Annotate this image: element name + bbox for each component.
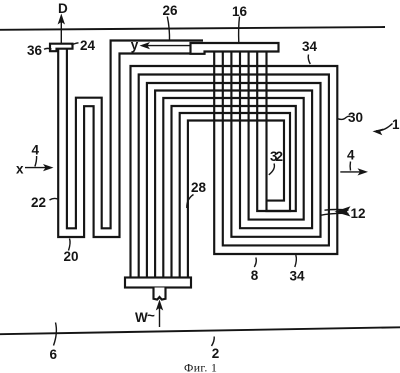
leader 20 <box>69 239 71 251</box>
y arrow line <box>143 45 191 47</box>
svg-text:36: 36 <box>27 43 43 58</box>
D arrow <box>60 20 62 44</box>
stub W below bar 28 <box>154 288 166 300</box>
svg-text:1: 1 <box>392 117 400 132</box>
y arrowhead <box>140 42 151 49</box>
svg-text:12: 12 <box>351 206 366 221</box>
substrate bottom boundary line 2 <box>0 327 400 334</box>
leader 16 <box>238 17 241 43</box>
leader 36 <box>44 47 52 50</box>
svg-text:~: ~ <box>147 308 155 323</box>
leader 12 upper <box>325 209 349 212</box>
terminal pad 24/36 (T-bar) <box>50 44 73 52</box>
svg-text:28: 28 <box>191 180 207 195</box>
leader 26 <box>167 17 169 42</box>
coil path turn 4 <box>155 52 312 278</box>
svg-text:34: 34 <box>302 39 318 54</box>
bus bar 28 <box>125 278 191 288</box>
12 arrowhead <box>335 206 351 216</box>
coil path turn 8 <box>188 121 284 278</box>
svg-text:32: 32 <box>270 149 283 164</box>
svg-text:Фиг. 1: Фиг. 1 <box>184 361 217 373</box>
right 4 arrowhead <box>358 168 369 175</box>
svg-text:26: 26 <box>163 3 179 18</box>
right 4 tick <box>349 162 351 171</box>
arrowheads <box>43 14 384 311</box>
x arrowhead <box>43 164 54 171</box>
coil path turn 1 <box>131 52 338 278</box>
leader 30 <box>338 116 351 119</box>
leader 8 <box>254 258 256 268</box>
svg-text:4: 4 <box>32 143 40 158</box>
svg-text:8: 8 <box>251 268 259 283</box>
svg-text:22: 22 <box>31 195 46 210</box>
svg-text:24: 24 <box>80 38 96 53</box>
W arrowhead <box>156 300 163 311</box>
meander inner contour <box>67 41 203 229</box>
svg-text:16: 16 <box>232 4 248 19</box>
leader 12 lower <box>320 213 349 215</box>
svg-text:y: y <box>131 38 139 53</box>
coil path turn 6 <box>172 52 296 278</box>
svg-text:6: 6 <box>50 347 58 362</box>
bus bar 16 <box>191 43 279 54</box>
svg-text:x: x <box>16 162 24 177</box>
meander outer contour (electrode 22/20) <box>58 49 204 238</box>
svg-text:4: 4 <box>347 148 355 163</box>
svg-text:D: D <box>58 1 68 16</box>
leader 28 <box>187 195 194 209</box>
coil path turn 3 <box>147 52 321 278</box>
leader 2 <box>212 337 215 347</box>
1 arrowhead <box>373 129 384 136</box>
coil path turn 7 <box>180 52 290 278</box>
leader 1 arrow curve <box>376 124 393 131</box>
W arrow <box>159 303 161 327</box>
coil path turn 5 <box>163 52 303 278</box>
coil path turn 2 <box>139 52 329 278</box>
svg-text:34: 34 <box>290 269 306 284</box>
substrate top boundary line 6 <box>0 27 385 30</box>
left 4 tick <box>35 156 37 167</box>
svg-text:2: 2 <box>212 346 220 361</box>
svg-text:30: 30 <box>348 110 363 125</box>
leader 22 <box>50 198 58 200</box>
svg-text:20: 20 <box>64 249 79 264</box>
right 4 arrow <box>340 171 363 173</box>
leader 24 <box>72 43 79 45</box>
leader 34 bottom <box>295 255 297 267</box>
leader 6 tick <box>54 323 57 346</box>
leader 32 curve <box>269 164 275 175</box>
D arrowhead <box>58 14 65 25</box>
x arrow <box>25 167 48 169</box>
leader 34 top <box>308 55 310 65</box>
